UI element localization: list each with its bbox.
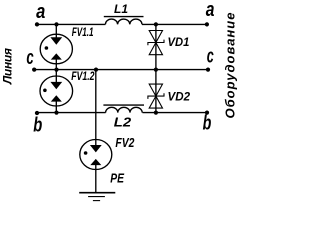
wire VD column (a to b through VD1/VD2) (155, 24, 157, 112)
wire row c (34, 69, 208, 71)
terminal dot c right (206, 68, 210, 72)
svg-text:FV1.1: FV1.1 (72, 27, 94, 39)
arrester FV2 (80, 140, 112, 170)
svg-text:c: c (26, 47, 33, 69)
node c / FV junction (54, 68, 58, 72)
arrester FV1.1 (40, 34, 72, 64)
node c / FV2 branch junction (94, 68, 98, 72)
diode VD2 (149, 84, 162, 96)
FV2 top electrode (from node c, crosses row b) (95, 70, 97, 151)
node b / VD2 junction (154, 111, 158, 115)
wire row b left segment (37, 112, 106, 114)
svg-text:c: c (207, 45, 214, 67)
terminal dot b right (205, 111, 209, 115)
FV2 gas dot (84, 151, 88, 155)
svg-text:Линия: Линия (1, 48, 15, 85)
terminal dot a right (205, 22, 209, 26)
terminal dot b left (35, 111, 39, 115)
svg-text:FV1.2: FV1.2 (71, 71, 95, 83)
svg-text:b: b (33, 115, 42, 137)
inductor L1 core line (104, 16, 144, 18)
svg-text:a: a (36, 1, 45, 23)
arrester FV1.2 (40, 76, 73, 106)
node c / VD junction (154, 68, 158, 72)
node a / VD1 junction (154, 22, 158, 26)
FV1.1 gas dot (45, 46, 49, 50)
FV1.2 top electrode (55, 70, 57, 88)
FV1.2 bottom electrode (55, 101, 57, 113)
terminal dot a left (35, 22, 39, 26)
svg-text:a: a (206, 0, 215, 21)
wire row a right segment (142, 23, 207, 25)
terminal dot c left (32, 67, 36, 71)
svg-text:L2: L2 (114, 116, 131, 130)
svg-text:PE: PE (110, 171, 124, 186)
diode VD1 (149, 31, 162, 43)
FV1.1 top electrode (55, 24, 57, 43)
inductor L1 (105, 19, 142, 24)
inductor L2 (106, 107, 143, 112)
svg-text:b: b (203, 113, 212, 135)
FV1.1 bottom electrode (55, 59, 57, 70)
wire row b right segment (143, 112, 208, 114)
inductor L2 core line (103, 104, 144, 106)
node a / FV1.1 junction (54, 22, 58, 26)
ground PE (79, 192, 115, 194)
node b / FV1.2 junction (54, 111, 58, 115)
svg-text:VD1: VD1 (168, 35, 190, 49)
svg-text:FV2: FV2 (115, 136, 134, 150)
svg-text:Оборудование: Оборудование (223, 13, 238, 119)
FV2 bottom electrode (95, 164, 97, 193)
FV1.2 gas dot (43, 89, 47, 93)
wire row a left segment (37, 23, 105, 25)
svg-text:VD2: VD2 (168, 90, 191, 104)
svg-text:L1: L1 (114, 4, 128, 16)
